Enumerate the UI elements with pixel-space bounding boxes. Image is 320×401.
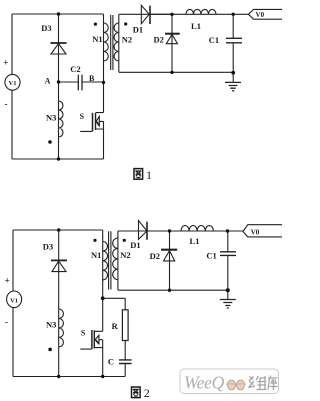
svg-text:+: + [3, 58, 8, 68]
svg-text:B: B [89, 74, 95, 83]
svg-text:L1: L1 [191, 21, 201, 31]
svg-text:S: S [81, 329, 86, 338]
svg-text:-: - [5, 317, 8, 327]
svg-text:C1: C1 [209, 35, 219, 45]
svg-text:+: + [5, 276, 10, 286]
svg-text:C2: C2 [70, 64, 80, 74]
svg-text:N1: N1 [91, 250, 101, 260]
svg-text:-: - [5, 99, 8, 109]
svg-text:2: 2 [144, 386, 150, 400]
svg-text:D1: D1 [133, 25, 143, 35]
svg-text:N2: N2 [122, 35, 132, 45]
svg-text:WeeQ: WeeQ [184, 373, 225, 393]
svg-text:D1: D1 [130, 240, 140, 250]
svg-text:N1: N1 [92, 34, 102, 44]
svg-text:N2: N2 [120, 250, 130, 260]
svg-text:D3: D3 [41, 23, 51, 33]
svg-text:A: A [45, 77, 51, 86]
svg-text:C: C [108, 357, 114, 367]
svg-text:R: R [112, 321, 119, 331]
svg-text:N3: N3 [46, 113, 56, 123]
svg-text:V1: V1 [10, 297, 18, 304]
svg-text:S: S [80, 112, 85, 121]
svg-text:L1: L1 [190, 236, 200, 246]
svg-text:V0: V0 [251, 229, 260, 237]
svg-text:D2: D2 [154, 34, 164, 44]
svg-text:N3: N3 [46, 320, 56, 330]
svg-text:V1: V1 [9, 80, 17, 87]
svg-text:1: 1 [146, 168, 152, 182]
svg-text:D2: D2 [150, 251, 160, 261]
svg-text:D3: D3 [43, 242, 53, 252]
svg-text:C1: C1 [206, 251, 216, 261]
svg-text:V0: V0 [256, 11, 265, 19]
